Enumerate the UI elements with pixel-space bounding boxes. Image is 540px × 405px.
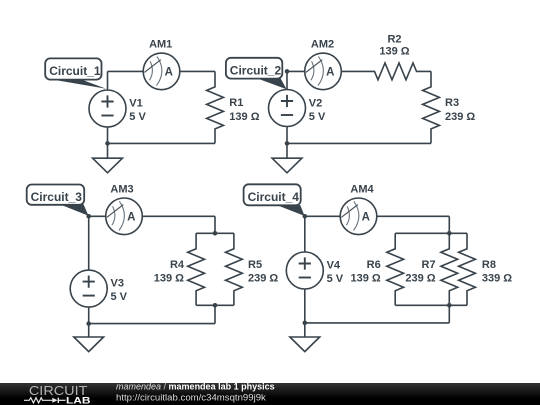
ground — [290, 337, 320, 352]
node rail top C4 — [447, 231, 452, 236]
wire node to AM2 — [287, 70, 305, 72]
svg-text:239 Ω: 239 Ω — [248, 272, 278, 284]
svg-text:5 V: 5 V — [129, 111, 146, 123]
voltage source V3 — [70, 270, 107, 307]
svg-text:5 V: 5 V — [309, 111, 326, 123]
svg-text:V2: V2 — [309, 97, 322, 109]
top rail C3 — [196, 232, 234, 234]
wire V3 bottom to ground — [88, 307, 90, 337]
node rail bottom C4 — [447, 303, 452, 308]
svg-text:AM4: AM4 — [350, 183, 374, 195]
voltage source V2 — [269, 90, 306, 127]
ground — [74, 337, 104, 352]
ammeter AM2 — [305, 53, 342, 90]
ground — [93, 158, 123, 173]
wire R3 bottom to V2 bottom — [287, 142, 431, 144]
svg-text:Circuit_2: Circuit_2 — [230, 63, 282, 77]
svg-text:5 V: 5 V — [111, 291, 128, 303]
voltage source V4 — [286, 252, 323, 289]
flag Circuit_4 tail — [279, 205, 305, 216]
resistor R4 — [188, 233, 205, 305]
flag Circuit_2 box — [226, 58, 282, 79]
svg-text:R5: R5 — [248, 259, 262, 271]
wire AM4 right to corner — [377, 215, 450, 217]
svg-text:239 Ω: 239 Ω — [445, 111, 475, 123]
ammeter AM3 — [106, 198, 143, 235]
svg-text:R3: R3 — [445, 97, 459, 109]
resistor R1 — [207, 71, 224, 143]
node junction C1 — [105, 141, 110, 146]
wire rail to bottom wire — [214, 305, 216, 323]
wire V2 bottom to ground — [286, 127, 288, 159]
bottom rail C3 — [196, 304, 234, 306]
flag Circuit_2 tail — [259, 78, 287, 89]
flag Circuit_3 tail — [62, 204, 89, 216]
bottom wire C4 — [305, 322, 450, 324]
wire V1 bottom to ground — [107, 127, 109, 158]
resistor R3 — [423, 71, 440, 143]
node junction C4 top — [303, 214, 308, 219]
flag Circuit_1 tail — [57, 79, 107, 89]
svg-text:V3: V3 — [111, 278, 124, 290]
node junction C2 top — [285, 69, 290, 74]
node junction C2 bottom — [285, 141, 290, 146]
top rail C4 — [395, 232, 467, 234]
svg-text:R7: R7 — [422, 259, 436, 271]
svg-text:339 Ω: 339 Ω — [482, 272, 512, 284]
svg-text:139 Ω: 139 Ω — [379, 45, 409, 57]
voltage source V1 — [89, 90, 126, 127]
resistor R5 — [226, 233, 243, 305]
svg-text:Circuit_3: Circuit_3 — [31, 190, 83, 204]
wire R1 bottom to V1 bottom — [108, 142, 216, 144]
flag Circuit_1 box — [45, 58, 101, 79]
svg-text:Circuit_4: Circuit_4 — [248, 190, 300, 204]
node rail bottom C3 — [213, 303, 218, 308]
ground — [272, 158, 302, 173]
wire V4 top — [304, 216, 306, 252]
logo wire with resistor and diode — [24, 398, 66, 403]
wire corner to AM1 left — [108, 70, 144, 72]
svg-text:5 V: 5 V — [327, 273, 344, 285]
wire AM3 right to corner — [142, 215, 215, 217]
wire AM1 right to R1 top corner — [180, 70, 215, 72]
svg-text:R4: R4 — [170, 259, 185, 271]
wire corner down to rail — [214, 216, 216, 233]
wire V3 top — [88, 216, 90, 270]
node junction C3 bottom — [86, 321, 91, 326]
wire node to AM3 — [89, 215, 106, 217]
wire corner down to rail C4 — [448, 216, 450, 233]
svg-text:V1: V1 — [129, 97, 142, 109]
svg-text:AM1: AM1 — [149, 39, 172, 51]
resistor R2 — [359, 63, 431, 80]
svg-text:LAB: LAB — [66, 396, 91, 405]
svg-text:http://circuitlab.com/c34msqtn: http://circuitlab.com/c34msqtn99j9k — [116, 392, 266, 403]
bottom wire C3 — [89, 323, 215, 325]
wire R2 right corner down to R3 — [430, 70, 432, 72]
svg-text:139 Ω: 139 Ω — [350, 272, 380, 284]
resistor R6 — [387, 233, 404, 305]
svg-text:AM3: AM3 — [110, 183, 133, 195]
ammeter AM4 — [340, 198, 377, 235]
bottom rail C4 — [395, 304, 467, 306]
node junction C3 top — [86, 214, 91, 219]
flag Circuit_3 box — [27, 185, 84, 205]
resistor R7 — [441, 233, 458, 305]
wire rail to bottom wire C4 — [448, 305, 450, 323]
wire V4 bottom to ground — [304, 289, 306, 337]
svg-text:AM2: AM2 — [311, 39, 334, 51]
wire V2 top to corner — [286, 71, 288, 89]
flag Circuit_4 box — [244, 184, 301, 205]
ammeter AM1 — [143, 53, 180, 90]
svg-text:139 Ω: 139 Ω — [229, 111, 259, 123]
svg-text:R8: R8 — [482, 259, 496, 271]
svg-text:139 Ω: 139 Ω — [154, 272, 184, 284]
svg-text:mamendea / mamendea lab 1 phys: mamendea / mamendea lab 1 physics — [116, 381, 275, 391]
svg-text:Circuit_1: Circuit_1 — [49, 64, 101, 78]
node rail top C3 — [213, 231, 218, 236]
wire node to AM4 — [305, 215, 340, 217]
svg-text:239 Ω: 239 Ω — [405, 272, 435, 284]
resistor R8 — [459, 233, 476, 305]
svg-text:R2: R2 — [387, 33, 401, 45]
wire AM2 right to R2 — [341, 70, 359, 72]
node junction C4 bottom — [303, 321, 308, 326]
wire V1 top to corner — [107, 71, 109, 90]
svg-text:V4: V4 — [327, 260, 341, 272]
svg-text:R1: R1 — [229, 97, 243, 109]
svg-text:R6: R6 — [367, 259, 381, 271]
